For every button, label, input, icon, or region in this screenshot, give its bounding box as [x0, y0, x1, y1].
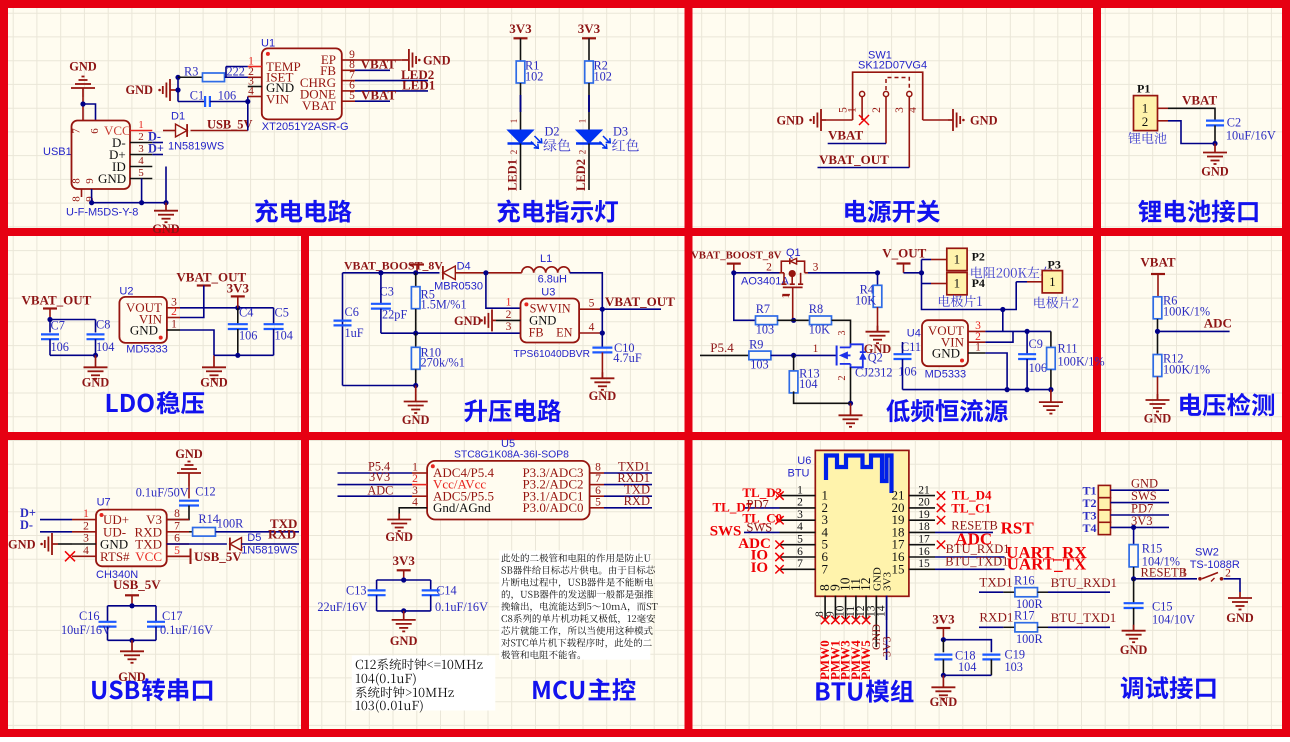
svg-text:GND: GND	[152, 222, 180, 236]
note box about diode and resistor	[499, 551, 650, 660]
ground GND pin9 EP	[355, 59, 402, 61]
title battery connector	[1138, 200, 1161, 223]
svg-text:3: 3	[412, 485, 418, 497]
wire C13/C14 bottom bus	[377, 610, 431, 612]
diode D5 1N5819WS	[167, 543, 227, 545]
svg-text:D2: D2	[545, 125, 560, 139]
svg-text:L1: L1	[540, 253, 552, 265]
svg-text:GND: GND	[589, 389, 617, 403]
svg-text:7: 7	[595, 473, 601, 485]
svg-text:U3: U3	[541, 287, 555, 299]
net LED1 pin6	[355, 90, 428, 92]
svg-text:D1: D1	[171, 111, 185, 123]
wire R9 to Q2 gate	[771, 354, 837, 356]
connector P2	[947, 248, 967, 270]
svg-text:106: 106	[218, 89, 236, 103]
ground under USB1	[165, 203, 167, 211]
power USB_5V at VCC	[167, 555, 191, 557]
svg-text:BTU_TXD1: BTU_TXD1	[1051, 610, 1117, 625]
wires V_OUT to P2/P4	[931, 259, 947, 261]
resistor R5 1.5M/%1	[415, 273, 417, 287]
wire bottom bus to GND (C4/C5)	[214, 354, 274, 356]
svg-text:1: 1	[797, 484, 803, 496]
svg-text:3V3: 3V3	[882, 572, 894, 591]
led D2 绿色	[508, 130, 533, 143]
svg-text:104: 104	[275, 329, 293, 343]
ground GND under C13/C14	[403, 611, 405, 620]
svg-text:100K/1%: 100K/1%	[1163, 363, 1210, 377]
no-connect X on pin 1	[859, 115, 869, 125]
svg-text:SW2: SW2	[1195, 547, 1219, 559]
title MCU	[533, 681, 549, 699]
svg-text:1uF: 1uF	[345, 326, 364, 340]
svg-text:TPS61040DBVR: TPS61040DBVR	[514, 349, 590, 360]
svg-text:Q1: Q1	[786, 247, 801, 259]
wire VBAT_OUT to VIN	[180, 286, 204, 318]
no-connect X bottom pins 8-12	[821, 616, 829, 624]
svg-text:VBAT: VBAT	[1182, 92, 1217, 107]
SW1 body top bar	[853, 72, 923, 120]
title LDO	[107, 394, 118, 412]
resistor R10 270k/%1	[415, 333, 417, 347]
svg-text:4: 4	[589, 321, 595, 333]
svg-text:IO: IO	[751, 560, 769, 576]
wire R7 to R8 node	[778, 319, 809, 321]
svg-text:2: 2	[837, 376, 848, 381]
wire cap bus top	[108, 605, 157, 607]
svg-text:3V3: 3V3	[227, 281, 250, 296]
resistor R4 10K	[877, 273, 879, 286]
ground U5 pin4	[399, 508, 412, 520]
svg-text:C2: C2	[1227, 116, 1241, 130]
svg-text:C15: C15	[1152, 600, 1173, 614]
wire cap bus bottom	[108, 639, 157, 641]
SW1 dashed actuator	[886, 78, 909, 91]
svg-text:22pF: 22pF	[382, 308, 407, 322]
svg-text:VCC: VCC	[135, 549, 162, 564]
svg-text:2: 2	[578, 150, 588, 155]
svg-text:3V3: 3V3	[393, 553, 416, 568]
svg-text:1.5M/%1: 1.5M/%1	[421, 298, 467, 312]
wire to Q1 source	[734, 272, 780, 274]
svg-text:5: 5	[138, 167, 144, 179]
ground GND under R4	[877, 326, 879, 332]
svg-text:GND: GND	[1144, 412, 1172, 426]
svg-text:C5: C5	[275, 305, 289, 319]
wire U4 GND down	[985, 353, 1007, 390]
svg-text:PD7: PD7	[747, 498, 769, 512]
svg-text:VBAT_OUT: VBAT_OUT	[22, 293, 92, 308]
U7 right pins	[167, 519, 189, 521]
svg-text:106: 106	[1029, 361, 1047, 375]
svg-text:2: 2	[766, 262, 772, 274]
svg-text:C13: C13	[346, 584, 367, 598]
svg-text:2: 2	[171, 306, 177, 318]
ground GND boost bottom	[415, 386, 417, 402]
svg-text:3V3: 3V3	[880, 636, 894, 657]
U6 bottom pins 8-14	[824, 596, 826, 621]
svg-text:20: 20	[918, 497, 930, 509]
wire left branch to C6	[342, 273, 344, 386]
svg-text:4: 4	[138, 155, 144, 167]
svg-text:10K: 10K	[855, 294, 876, 308]
svg-text:C8: C8	[96, 318, 110, 332]
svg-text:2: 2	[506, 309, 512, 321]
wire 3V3 to R1	[520, 38, 522, 61]
svg-text:106: 106	[239, 329, 257, 343]
svg-text:RST: RST	[1001, 519, 1035, 538]
svg-text:104: 104	[96, 340, 114, 354]
svg-text:1: 1	[847, 107, 859, 113]
no-connect X RTS#	[65, 551, 75, 561]
svg-text:3: 3	[797, 509, 803, 521]
ground GND under C8	[95, 355, 97, 367]
label electrode 1	[939, 295, 950, 307]
resistor R15 104/1%	[1129, 545, 1138, 567]
svg-text:103: 103	[1005, 660, 1023, 674]
ground GND under C10	[601, 372, 603, 378]
ground GND right of SW2	[1239, 592, 1241, 598]
svg-text:1: 1	[781, 294, 792, 299]
svg-text:1: 1	[171, 319, 177, 331]
wire GND to C12	[188, 486, 190, 498]
diode D1 1N5819WS	[163, 130, 176, 132]
label electrode 2	[1034, 297, 1045, 309]
title boost circuit	[464, 399, 487, 422]
svg-text:2: 2	[509, 150, 519, 155]
U1 pin1 wire TEMP	[226, 66, 248, 68]
U4 right pins 3 2 1	[968, 330, 985, 332]
ground GND under C16/C17	[131, 640, 133, 651]
wire R8 to Q2 drain	[832, 320, 851, 344]
wire U2 GND pin1 to ground	[180, 330, 214, 355]
SW1 contacts	[860, 91, 865, 96]
svg-text:4: 4	[412, 496, 418, 508]
svg-text:AO3401A: AO3401A	[741, 276, 789, 288]
svg-text:1: 1	[83, 508, 89, 520]
svg-text:GND: GND	[1201, 165, 1229, 179]
wire C18/C19 bottom bus	[943, 674, 991, 676]
svg-text:C16: C16	[79, 609, 100, 623]
U1 left pins 1-4	[248, 66, 262, 68]
GND bus under USB1	[92, 189, 166, 203]
ground GND right of SW1	[948, 119, 953, 121]
wire VBAT rail down to R7	[734, 273, 756, 321]
svg-text:R9: R9	[749, 338, 763, 352]
wire U2 VOUT to 3V3/C4/C5	[180, 307, 274, 309]
svg-text:P3.0/ADC0: P3.0/ADC0	[522, 500, 583, 515]
svg-text:5: 5	[349, 90, 355, 102]
diode D4 MBR0530	[443, 266, 455, 280]
svg-text:10uF/16V: 10uF/16V	[1226, 129, 1276, 143]
wire pin14 3V3 rotated	[886, 596, 888, 661]
wire C12 to pin8	[167, 506, 189, 520]
svg-text:VBAT_BOOST_8V: VBAT_BOOST_8V	[691, 250, 782, 262]
ground GND right	[1050, 390, 1052, 403]
svg-text:0.1uF/16V: 0.1uF/16V	[435, 600, 488, 614]
svg-text:GND: GND	[69, 60, 97, 74]
svg-text:VIN: VIN	[266, 92, 290, 107]
svg-text:8: 8	[71, 178, 83, 184]
wire USB1 pins 6-7 to GND	[82, 97, 84, 121]
svg-text:SWS: SWS	[710, 524, 742, 540]
wire VBAT_OUT to C7/C8	[49, 309, 51, 320]
svg-text:1: 1	[975, 342, 981, 354]
title charging circuit	[255, 200, 278, 223]
svg-text:17: 17	[918, 534, 930, 546]
U1 right pins 5-9	[342, 59, 355, 61]
resistor R2 102	[585, 61, 594, 83]
wire U4 VIN jog	[985, 331, 1013, 342]
U5 left pins 1-4	[412, 472, 427, 474]
svg-text:BTU_RXD1: BTU_RXD1	[1051, 575, 1117, 590]
svg-text:VBAT: VBAT	[361, 87, 396, 102]
U6 right pins 21-15	[909, 495, 935, 497]
svg-text:MD5333: MD5333	[925, 369, 967, 381]
ground GND under C15	[1133, 625, 1135, 631]
svg-text:D+: D+	[148, 142, 164, 156]
svg-text:USB_5V: USB_5V	[194, 549, 242, 564]
wire D1 to USB_5V / VIN	[191, 130, 248, 132]
svg-text:EN: EN	[556, 326, 573, 340]
svg-text:ADC: ADC	[367, 483, 393, 497]
capacitor C15 104/10V	[1133, 579, 1135, 603]
svg-text:U2: U2	[119, 286, 133, 298]
wire C2 to GND node	[1214, 125, 1216, 143]
svg-text:SK12D07VG4: SK12D07VG4	[858, 60, 927, 72]
led D3 红色	[577, 130, 602, 143]
U2 right pins 3 2 1	[167, 307, 180, 309]
ground GND below C2	[1214, 144, 1216, 153]
svg-text:106: 106	[898, 365, 916, 379]
svg-text:1: 1	[954, 252, 961, 267]
title charge indicator	[497, 200, 520, 223]
resistor R1 102	[516, 61, 525, 83]
capacitor C10 4.7uF	[592, 347, 612, 349]
svg-text:C6: C6	[345, 305, 359, 319]
wire R6 to ADC node	[1157, 319, 1159, 355]
svg-text:4: 4	[248, 85, 254, 97]
wire D2 to LED1	[520, 144, 522, 191]
capacitor C2 10uF/16V	[1206, 119, 1224, 121]
svg-text:U4: U4	[907, 328, 921, 340]
svg-text:GND: GND	[970, 114, 998, 128]
svg-text:100R: 100R	[217, 517, 244, 531]
svg-text:GND: GND	[82, 376, 110, 390]
svg-text:RXD1: RXD1	[979, 610, 1013, 625]
svg-text:270k/%1: 270k/%1	[421, 356, 465, 370]
svg-text:U7: U7	[97, 497, 111, 509]
svg-text:GND: GND	[390, 634, 418, 648]
svg-text:106: 106	[51, 340, 69, 354]
svg-text:100R: 100R	[1016, 632, 1043, 646]
svg-text:GND: GND	[1120, 643, 1148, 657]
svg-text:C4: C4	[239, 305, 253, 319]
svg-text:USB1: USB1	[43, 146, 72, 158]
wire C7/C8 bottoms to GND	[50, 354, 96, 356]
svg-text:2: 2	[83, 520, 89, 532]
svg-text:4.7uF: 4.7uF	[613, 351, 642, 365]
resistor R6 100K/1%	[1153, 297, 1162, 319]
svg-text:VBAT_BOOST_8V: VBAT_BOOST_8V	[344, 259, 443, 273]
ground GND under Q2	[850, 403, 852, 415]
wire R1 to D2	[520, 83, 522, 130]
svg-text:1: 1	[506, 297, 512, 309]
svg-text:GND: GND	[423, 54, 451, 68]
wire D3 to LED2	[588, 144, 590, 191]
svg-text:7: 7	[797, 558, 803, 570]
svg-text:6.8uH: 6.8uH	[538, 274, 567, 286]
svg-text:R16: R16	[1014, 574, 1035, 588]
svg-text:D-: D-	[20, 518, 33, 532]
svg-text:V_OUT: V_OUT	[882, 246, 926, 261]
svg-text:R11: R11	[1058, 342, 1078, 356]
title power switch	[845, 200, 866, 223]
svg-text:1: 1	[509, 119, 519, 124]
no-connect X marks left pins	[775, 491, 783, 499]
U3 pin2 GND stub	[496, 319, 521, 321]
svg-text:TXD1: TXD1	[979, 575, 1012, 590]
svg-text:Q2: Q2	[868, 351, 883, 365]
svg-text:TS-1088R: TS-1088R	[1190, 559, 1240, 571]
svg-text:R15: R15	[1142, 542, 1163, 556]
svg-text:UART_TX: UART_TX	[1007, 555, 1087, 574]
svg-text:3: 3	[138, 143, 144, 155]
svg-text:104: 104	[958, 660, 976, 674]
svg-text:TL_C1: TL_C1	[951, 501, 991, 516]
wire P1.2 to GND	[1168, 121, 1215, 144]
GND bus under U4	[903, 389, 1051, 391]
svg-text:R7: R7	[756, 302, 770, 316]
ground GND under C18	[942, 675, 944, 687]
svg-text:BTU: BTU	[788, 468, 810, 480]
title constant current source	[886, 399, 910, 422]
svg-text:1: 1	[412, 462, 418, 474]
svg-text:GND: GND	[8, 538, 36, 552]
svg-text:6: 6	[595, 485, 601, 497]
wire RESETB to SW2	[1134, 578, 1197, 580]
svg-text:C1: C1	[190, 89, 204, 103]
svg-text:3: 3	[83, 533, 89, 545]
wire EN to VOUT and C10	[601, 309, 603, 347]
svg-text:18: 18	[918, 521, 930, 533]
wire SW node down to U3 pin1	[486, 273, 521, 308]
wire P3 to U4 VOUT node	[1027, 281, 1042, 283]
no-connect X marks right pins	[937, 491, 945, 499]
svg-text:LED2: LED2	[574, 159, 588, 191]
svg-text:RXD: RXD	[268, 527, 296, 542]
wire C13/C14 top bus	[377, 579, 431, 581]
svg-text:1N5819WS: 1N5819WS	[168, 141, 224, 153]
svg-text:VBAT: VBAT	[302, 98, 336, 113]
svg-text:1: 1	[954, 276, 961, 291]
svg-text:9: 9	[84, 178, 96, 184]
wire R2 to D3	[588, 83, 590, 130]
connector P4	[947, 273, 967, 295]
U5 right pins 5-8	[590, 472, 604, 474]
resistor R12 100K/1%	[1153, 355, 1162, 377]
wire L1 to VBAT_OUT node	[570, 273, 603, 309]
antenna meander	[826, 456, 892, 494]
svg-text:LED1: LED1	[506, 159, 520, 191]
svg-text:3: 3	[837, 331, 848, 336]
wire T4 to R15	[1133, 527, 1135, 544]
svg-text:5: 5	[797, 534, 803, 546]
svg-text:2: 2	[797, 497, 803, 509]
wire SW2 to GND	[1224, 579, 1241, 592]
note resistance 200K	[971, 267, 982, 279]
svg-text:GND: GND	[98, 171, 126, 186]
svg-text:3: 3	[894, 107, 906, 113]
net RESETB node	[1133, 567, 1135, 579]
svg-text:5: 5	[174, 545, 180, 557]
title voltage detect	[1180, 393, 1201, 416]
resistor R13 104	[793, 355, 795, 372]
svg-text:GND: GND	[776, 114, 804, 128]
svg-text:3: 3	[813, 262, 819, 274]
svg-text:ADC: ADC	[1204, 316, 1232, 331]
svg-text:D3: D3	[613, 125, 628, 139]
svg-text:3V3: 3V3	[932, 612, 955, 627]
svg-text:U5: U5	[501, 438, 515, 450]
svg-text:4: 4	[907, 107, 919, 113]
wire Q2 source to GND	[850, 367, 852, 403]
svg-text:6: 6	[797, 546, 803, 558]
wire pin13 GND rotated	[875, 596, 877, 648]
svg-text:GND: GND	[385, 530, 413, 544]
wire R10 to GND bus	[415, 369, 417, 385]
svg-text:MBR0530: MBR0530	[434, 281, 483, 293]
svg-text:U6: U6	[797, 455, 811, 467]
svg-text:0.1uF/16V: 0.1uF/16V	[160, 623, 213, 637]
svg-text:102: 102	[594, 70, 612, 84]
svg-text:2: 2	[1225, 568, 1231, 580]
wire SWS net	[744, 531, 780, 533]
svg-text:15: 15	[918, 558, 930, 570]
wire pin5 pin4 to GND bus	[141, 179, 143, 203]
svg-text:RESETB: RESETB	[1141, 566, 1188, 580]
svg-text:USB_5V: USB_5V	[207, 118, 252, 132]
svg-text:U-F-M5DS-Y-8: U-F-M5DS-Y-8	[66, 207, 138, 219]
svg-text:7: 7	[174, 520, 180, 532]
FB bus wire	[415, 309, 417, 333]
title BTU module	[816, 682, 829, 700]
title debug interface	[1121, 677, 1143, 700]
svg-text:GND: GND	[125, 83, 153, 97]
resistor R11 100K/1%	[1050, 331, 1052, 347]
net LED2 pin7	[355, 80, 428, 82]
svg-text:GND: GND	[1226, 611, 1254, 625]
svg-text:5: 5	[595, 496, 601, 508]
svg-text:VBAT_OUT: VBAT_OUT	[819, 152, 889, 167]
svg-text:22uF/16V: 22uF/16V	[317, 600, 367, 614]
svg-text:BTU_TXD1: BTU_TXD1	[945, 555, 1008, 569]
svg-text:4: 4	[797, 521, 803, 533]
svg-text:VBAT_OUT: VBAT_OUT	[605, 294, 675, 309]
svg-text:1: 1	[138, 119, 144, 131]
Q1 gate wire down	[792, 287, 794, 320]
wire U4 VOUT to C9/R11	[985, 330, 1051, 332]
svg-text:1N5819WS: 1N5819WS	[241, 545, 297, 557]
svg-text:C7: C7	[51, 319, 65, 333]
svg-text:GND: GND	[402, 413, 430, 427]
svg-text:1: 1	[1049, 274, 1056, 289]
svg-text:GND: GND	[175, 447, 203, 461]
svg-text:2: 2	[138, 131, 144, 143]
svg-text:GND: GND	[454, 314, 482, 328]
wire R12 to GND	[1157, 377, 1159, 400]
svg-text:4: 4	[83, 545, 89, 557]
